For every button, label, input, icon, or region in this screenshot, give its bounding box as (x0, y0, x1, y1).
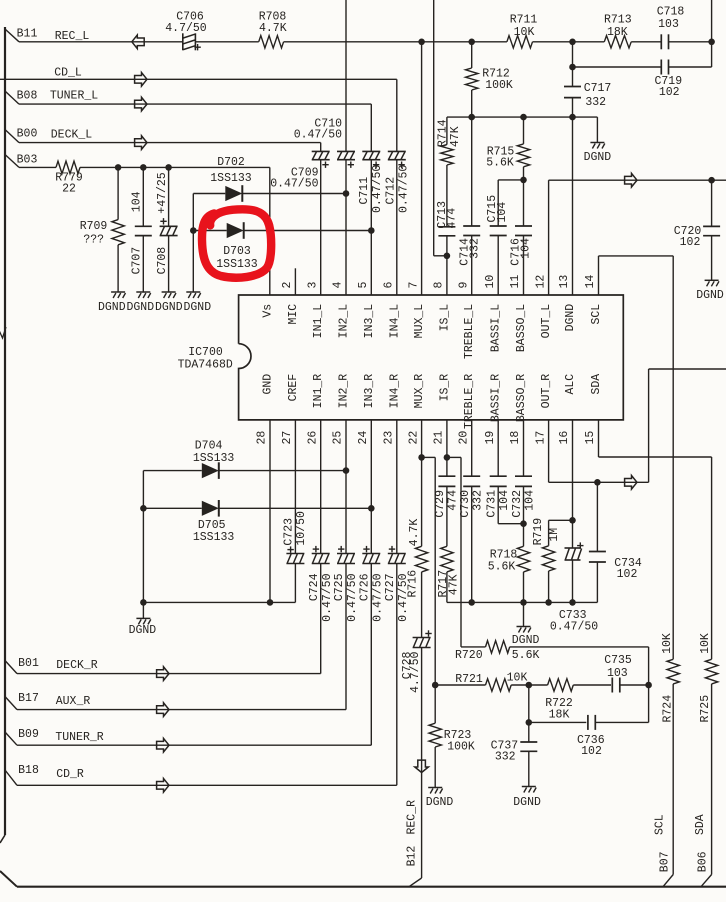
svg-text:DGND: DGND (98, 301, 126, 314)
svg-text:DGND: DGND (564, 304, 577, 332)
svg-text:MUX_R: MUX_R (413, 374, 426, 409)
svg-text:B12: B12 (406, 846, 419, 867)
wire pin25 col top (345, 420, 347, 554)
bus bottom edge (17, 886, 726, 888)
resistor R715 (517, 144, 529, 167)
svg-text:C731: C731 (486, 490, 499, 518)
arrow TUNER_R (157, 738, 169, 752)
svg-text:0.47/50: 0.47/50 (321, 573, 334, 621)
wire R715 L-row (498, 179, 523, 181)
svg-text:BASSO_L: BASSO_L (515, 304, 528, 352)
node pin16-R719 (569, 517, 576, 524)
svg-text:B06: B06 (696, 851, 709, 872)
wire C737 top (528, 722, 530, 742)
node D703-pin5 (368, 227, 375, 234)
svg-text:IS_R: IS_R (438, 374, 451, 402)
wire pin5 col top (370, 104, 372, 151)
wire rail vertical (192, 194, 194, 293)
svg-text:20: 20 (457, 431, 470, 445)
wire pin8 col bottom (446, 236, 448, 295)
svg-text:4.7/50: 4.7/50 (165, 22, 207, 35)
svg-text:R711: R711 (510, 14, 538, 27)
capacitor C714 (463, 225, 480, 227)
wire pin10 col bottom (497, 236, 499, 296)
svg-text:22: 22 (407, 431, 420, 445)
wire AUX_R row (17, 709, 346, 711)
ground DGND C737 (522, 786, 536, 788)
ground DGND R709 (111, 291, 125, 293)
wire D702 row right (242, 193, 346, 195)
capacitor C733 (565, 547, 581, 549)
wire pin26 col top (320, 420, 322, 554)
svg-text:18K: 18K (549, 708, 570, 721)
arrow DECK_L input (135, 136, 147, 150)
svg-text:D704: D704 (195, 439, 223, 452)
wire REC_R row seg1 (435, 684, 485, 686)
svg-text:0.47/50: 0.47/50 (294, 128, 342, 141)
wire pin24 col bottom (370, 564, 372, 746)
capacitor C707 (135, 225, 152, 227)
node rail-row (140, 599, 147, 606)
svg-text:+47/25: +47/25 (156, 172, 169, 214)
resistor R714 (441, 145, 453, 165)
svg-text:CD_R: CD_R (56, 768, 84, 781)
capacitor C730 (463, 475, 480, 477)
svg-text:DGND: DGND (126, 301, 154, 314)
capacitor C710 (337, 150, 355, 152)
svg-text:23: 23 (383, 431, 396, 445)
resistor R716 (415, 546, 427, 572)
svg-text:B03: B03 (17, 154, 38, 167)
wire SCL row (599, 255, 674, 257)
svg-text:10K: 10K (507, 671, 528, 684)
node OUTR-C734 (594, 479, 601, 486)
capacitor C706 (182, 33, 184, 50)
port B11 stub (5, 29, 19, 42)
wire R718 bottom (523, 572, 525, 603)
svg-text:TDA7468D: TDA7468D (178, 358, 233, 371)
node B03-R709 (115, 164, 122, 171)
wire pin14 column (598, 256, 600, 295)
wire C719 row seg1 (573, 66, 662, 68)
resistor R712 (466, 68, 478, 90)
svg-text:47K: 47K (448, 574, 461, 595)
wire SDA vertical upper (711, 457, 713, 659)
svg-text:SCL: SCL (654, 814, 667, 835)
wire CD_R row (17, 784, 397, 786)
node REF-R715 (520, 114, 527, 121)
svg-text:DECK_L: DECK_L (51, 129, 93, 142)
svg-text:IN4_L: IN4_L (388, 304, 401, 339)
node pin28-row (267, 599, 274, 606)
svg-text:24: 24 (357, 431, 370, 445)
svg-text:SCL: SCL (590, 304, 603, 325)
wire D703 row left (193, 230, 226, 232)
svg-text:DGND: DGND (513, 796, 541, 809)
arrow AUX_R (157, 703, 169, 717)
wire D705 row left (143, 507, 201, 509)
node branch-RECR (432, 682, 439, 689)
node groundrow-R718 (520, 599, 527, 606)
svg-text:BASSO_R: BASSO_R (515, 374, 528, 422)
svg-text:D705: D705 (198, 519, 226, 532)
svg-text:474: 474 (446, 208, 459, 229)
wire pin4 col bottom (345, 160, 347, 295)
svg-text:DGND: DGND (696, 289, 724, 302)
wire box right vertical (648, 647, 650, 723)
wire pin3 col top (320, 143, 322, 152)
wire pin24 col top (370, 420, 372, 554)
wire TUNER_R row (17, 744, 371, 746)
arrow REC_R out (415, 760, 429, 772)
svg-text:IN1_L: IN1_L (312, 304, 325, 339)
node IS_L-pin8 (444, 253, 451, 260)
svg-text:R713: R713 (604, 14, 632, 27)
svg-text:MUX_L: MUX_L (413, 304, 426, 339)
wire MUX_R branch h (422, 456, 436, 458)
svg-text:104: 104 (520, 238, 533, 259)
svg-text:MIC: MIC (287, 304, 300, 325)
wire pin28 column (269, 420, 271, 603)
svg-text:DGND: DGND (155, 301, 183, 314)
svg-text:100K: 100K (447, 741, 475, 754)
wire R709 bottom (117, 245, 119, 292)
wire D705 row right (219, 507, 371, 509)
svg-text:R716: R716 (406, 570, 419, 598)
arrow OUT_L (625, 173, 637, 187)
svg-text:10K: 10K (514, 26, 535, 39)
svg-text:GND: GND (262, 374, 275, 395)
svg-text:R724: R724 (661, 695, 674, 723)
wire R717-groundrow (446, 572, 448, 603)
svg-text:C718: C718 (657, 6, 685, 19)
svg-text:332: 332 (495, 751, 516, 764)
capacitor C716 (515, 225, 532, 227)
wire IS_L branch horiz (434, 255, 447, 257)
wire pin18 col top (523, 420, 525, 476)
wire pin22 col (421, 420, 423, 546)
resistor R719 (542, 546, 554, 571)
svg-text:0.47/50: 0.47/50 (270, 177, 318, 190)
svg-text:104: 104 (498, 490, 511, 511)
svg-text:1M: 1M (548, 528, 561, 542)
node B03-C707 (140, 164, 147, 171)
node pin21-junction (444, 454, 451, 461)
svg-text:14: 14 (584, 275, 597, 289)
svg-text:9: 9 (457, 282, 470, 289)
wire D703 row right (244, 230, 372, 232)
port B12 stub (409, 878, 422, 887)
node groundrow-R719 (545, 599, 552, 606)
wire REC_R row seg2 (511, 684, 547, 686)
port B06 stub (701, 875, 712, 887)
capacitor C727 (388, 553, 406, 555)
wire pin26 col bottom (320, 564, 322, 674)
wire C729-R717 (446, 486, 448, 546)
port B18 stub (5, 770, 17, 785)
port B00 stub (5, 130, 19, 143)
svg-text:26: 26 (306, 431, 319, 445)
wire REC_L row seg3 (284, 41, 507, 43)
wire REC_L row seg6 (669, 41, 712, 43)
svg-text:10/50: 10/50 (295, 511, 308, 546)
svg-text:12: 12 (534, 275, 547, 289)
arrow CD_L input (135, 73, 147, 87)
svg-text:332: 332 (585, 96, 606, 109)
capacitor C723 (286, 553, 304, 555)
svg-text:CREF: CREF (287, 374, 300, 402)
node box-RECR (645, 682, 652, 689)
svg-text:4.7K: 4.7K (408, 519, 421, 547)
bus bottom-left diagonal (0, 871, 17, 887)
wire C736 drop (528, 685, 530, 722)
svg-text:R721: R721 (455, 673, 483, 686)
wire C734 top (596, 482, 598, 551)
capacitor C709 (312, 150, 330, 152)
wire R720 row right (510, 646, 649, 648)
resistor R709 (112, 220, 124, 245)
svg-text:17: 17 (534, 431, 547, 445)
node topright (708, 39, 715, 46)
ground DGND ref (590, 142, 604, 144)
svg-text:C711: C711 (358, 177, 371, 205)
svg-text:10K: 10K (661, 633, 674, 654)
arrow OUT_R (625, 476, 637, 490)
svg-text:C707: C707 (131, 247, 144, 275)
resistor R713 (604, 36, 631, 48)
capacitor C725 (337, 553, 355, 555)
svg-text:IC700: IC700 (188, 346, 223, 359)
wire pin10 col top (497, 180, 499, 226)
svg-text:C732: C732 (511, 490, 524, 518)
node groundrow-C733 (569, 599, 576, 606)
svg-text:C708: C708 (156, 247, 169, 275)
arrow DECK_R (157, 667, 169, 681)
svg-text:6: 6 (383, 282, 396, 289)
resistor R723 (429, 723, 441, 747)
resistor R721 (486, 679, 512, 691)
bus left edge (4, 27, 6, 835)
svg-text:DGND: DGND (584, 151, 612, 164)
svg-text:4.7K: 4.7K (259, 22, 287, 35)
svg-text:8: 8 (433, 282, 446, 289)
svg-text:AUX_R: AUX_R (56, 695, 91, 708)
wire C737 bottom (528, 751, 530, 786)
svg-text:15: 15 (584, 431, 597, 445)
wire pin8 col mid (446, 165, 448, 227)
wire pin16 column (572, 420, 574, 548)
capacitor C729 (438, 475, 455, 477)
node C736-C737 (526, 719, 533, 726)
svg-text:0.47/50: 0.47/50 (372, 573, 385, 621)
port B07 stub (663, 875, 673, 887)
svg-text:0.47/50: 0.47/50 (550, 620, 598, 633)
ic IC700 TDA7468D body (239, 295, 624, 420)
node REC-pin13 (569, 39, 576, 46)
wire pin9 col top (471, 42, 473, 68)
svg-text:1SS133: 1SS133 (193, 531, 235, 544)
svg-text:IN2_R: IN2_R (338, 374, 351, 409)
node rail-D705 (140, 505, 147, 512)
diode D703 (227, 223, 244, 238)
svg-text:18: 18 (509, 431, 522, 445)
svg-text:10: 10 (484, 275, 497, 289)
wire pin20 col top (471, 420, 473, 476)
wire IS_L branch vertical (433, 0, 435, 256)
svg-text:C717: C717 (584, 82, 612, 95)
wire REC_L row seg4 (533, 41, 605, 43)
wire pin5 col bottom (370, 160, 372, 295)
node D702-pin4 (343, 190, 350, 197)
svg-text:IS_L: IS_L (438, 304, 451, 332)
wire DECK_R row (17, 673, 321, 675)
resistor R722 (548, 679, 574, 691)
svg-text:4: 4 (332, 282, 345, 289)
wire REC_L row seg1 (19, 41, 183, 43)
wire D702 row left (193, 193, 225, 195)
capacitor C728 (413, 637, 431, 639)
resistor R718 (517, 546, 529, 572)
wire C720 bottom (711, 236, 713, 281)
wire C736 row seg2 (595, 721, 648, 723)
svg-text:IN3_L: IN3_L (363, 304, 376, 339)
wire DECK_L row (19, 142, 321, 144)
svg-text:102: 102 (581, 745, 602, 758)
svg-text:B11: B11 (17, 28, 38, 41)
svg-text:DGND: DGND (512, 634, 540, 647)
wire REC_R row seg3 (573, 684, 611, 686)
svg-text:TUNER_L: TUNER_L (50, 90, 98, 103)
wire C733 bottom (572, 560, 574, 602)
port B09 stub (5, 732, 17, 745)
node RECR-R722 (526, 682, 533, 689)
capacitor C737 (520, 741, 537, 743)
wire pin6 col top (396, 79, 398, 151)
svg-text:C724: C724 (308, 573, 321, 601)
wire SCL vertical lower (672, 684, 674, 875)
capacitor C708 (160, 225, 178, 227)
svg-text:104: 104 (496, 202, 509, 223)
wire CD_L row (0, 78, 397, 80)
svg-text:B07: B07 (658, 851, 671, 872)
wire DGND stub row (523, 602, 525, 626)
svg-text:11: 11 (509, 275, 522, 289)
edge partial glyph (0, 327, 6, 338)
wire OUT_R row (549, 481, 649, 483)
wire C728-arrow (421, 648, 423, 773)
wire pin23 col bottom (396, 564, 398, 786)
wire pin9 col bottom (471, 236, 473, 296)
port B01 stub (5, 661, 17, 674)
capacitor C726 (362, 553, 380, 555)
svg-text:100K: 100K (485, 79, 513, 92)
diode D702 (225, 186, 242, 201)
svg-text:B00: B00 (17, 128, 38, 141)
node rail-D703 (190, 227, 197, 234)
svg-text:TUNER_R: TUNER_R (55, 731, 103, 744)
node D705-pin24 (368, 505, 375, 512)
svg-text:REC_L: REC_L (55, 30, 90, 43)
svg-text:25: 25 (332, 431, 345, 445)
node D704-pin25 (343, 467, 350, 474)
wire C734 bottom (596, 562, 598, 602)
wire R709 top (117, 167, 119, 219)
ground DGND C707 (136, 291, 150, 293)
port B08 stub (5, 91, 19, 104)
svg-text:332: 332 (468, 238, 481, 259)
wire R716-C728 (421, 572, 423, 638)
wire DGND drop (596, 117, 598, 142)
svg-text:DECK_R: DECK_R (56, 659, 98, 672)
wire R723 top (434, 685, 436, 723)
wire IS_R branch h (447, 456, 461, 458)
wire pin21 col (446, 420, 448, 476)
wire D704 row left (143, 470, 201, 472)
svg-text:104: 104 (523, 490, 536, 511)
svg-text:7: 7 (407, 282, 420, 289)
svg-text:102: 102 (659, 86, 680, 99)
svg-text:ALC: ALC (564, 374, 577, 395)
svg-text:5: 5 (357, 282, 370, 289)
wire pin27 col top (294, 420, 296, 554)
ground DGND C720 (705, 279, 719, 281)
wire D704 row right (219, 470, 346, 472)
capacitor C712 (388, 150, 406, 152)
capacitor C718 (660, 34, 662, 49)
svg-text:1SS133: 1SS133 (193, 452, 235, 465)
wire reference row (447, 116, 598, 118)
svg-text:1SS133: 1SS133 (210, 172, 252, 185)
wire pin23 col top (396, 420, 398, 554)
port B03 stub (5, 155, 19, 168)
wire REC_R row seg4 (620, 684, 649, 686)
svg-text:13: 13 (558, 275, 571, 289)
node REF-pin13 (569, 114, 576, 121)
resistor R724 (667, 659, 679, 684)
svg-text:???: ??? (83, 234, 104, 247)
node B03-C708 (165, 164, 172, 171)
resistor R725 (705, 659, 717, 684)
wire R715 bottom (523, 167, 525, 180)
svg-text:103: 103 (658, 18, 679, 31)
wire B03 row seg2 (80, 166, 270, 168)
svg-text:R725: R725 (699, 695, 712, 723)
ground DGND R723 (428, 787, 442, 789)
svg-text:OUT_R: OUT_R (540, 374, 553, 409)
svg-text:IN3_R: IN3_R (363, 374, 376, 409)
wire B03 row seg1 (19, 166, 56, 168)
svg-text:0.47/50: 0.47/50 (397, 165, 410, 213)
node C719-pin13 (569, 64, 576, 71)
wire SDA vertical lower (711, 684, 713, 875)
wire R720 row left (461, 646, 486, 648)
wire TUNER_L row (19, 103, 371, 105)
wire C708 top (168, 167, 170, 226)
ground DGND row (517, 626, 531, 628)
svg-text:OUT_L: OUT_L (540, 304, 553, 339)
svg-text:R714: R714 (437, 119, 450, 147)
wire pin20 col bottom (471, 486, 473, 602)
wire pin19 L-row (498, 523, 523, 525)
wire R719 bottom (548, 571, 550, 602)
wire C707 bottom (142, 236, 144, 292)
wire pin4 col top (345, 0, 347, 151)
wire REC_L row seg5 (631, 41, 661, 43)
wire pin1 Vs column (269, 167, 271, 295)
wire R723 bottom (434, 747, 436, 788)
wire OUT_R offpage (649, 368, 726, 370)
resistor R708 (259, 36, 284, 48)
